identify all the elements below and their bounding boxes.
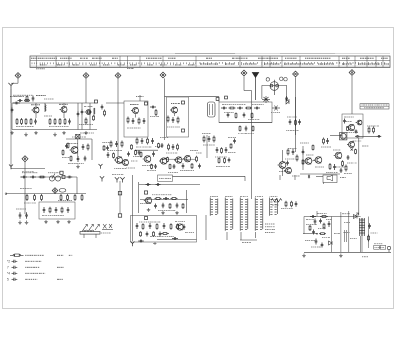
dial strip separator 2: [55, 56, 57, 67]
dial strip separator 10: [239, 56, 241, 67]
resistor R56 center a: [136, 138, 138, 145]
capacitor C51 center c: [152, 151, 155, 157]
capacitor C50 center b: [151, 138, 154, 144]
dial scale sub label mid: [127, 68, 134, 70]
ground psu left: [302, 254, 306, 258]
capacitor C57 am det e: [225, 147, 228, 153]
wire stub b: [294, 175, 296, 180]
jack symbol below fb: [131, 242, 135, 247]
dial scale lower figures 9: [160, 64, 167, 66]
FM antenna symbol: [8, 83, 13, 89]
label 150 ohm a: [334, 233, 340, 235]
label below AM box: [238, 133, 254, 135]
wave-band switch wafer S1c: [240, 198, 248, 231]
dial scale frequency figures group 2: [225, 63, 235, 65]
rectifier diode D2 on top rail: [354, 215, 358, 219]
resistor R25 right of amp: [368, 127, 370, 134]
wire FM bottom rail: [12, 129, 97, 131]
capacitor C46 fb out: [138, 240, 144, 243]
legend ceramic capacitor symbol: [12, 260, 18, 263]
DIN socket square upper: [118, 192, 121, 195]
resistor R71b psu mid: [319, 233, 326, 235]
resistor R71 psu: [323, 223, 325, 230]
resistor R51 fb c: [170, 223, 172, 230]
colon dots near speaker: [340, 177, 346, 179]
resistor R52 fb h: [161, 233, 169, 235]
wire stub a: [279, 175, 281, 180]
label T2 values: [167, 126, 180, 128]
resistor R55 mixers mid: [113, 153, 115, 159]
dial strip separator 5: [119, 56, 121, 67]
label top rail parts: [317, 213, 327, 215]
dial scale frequency figures group 8: [358, 63, 380, 65]
label am det5: [228, 152, 236, 154]
wire TP1 to antenna: [11, 82, 18, 84]
resistor R68 driver b: [296, 155, 298, 162]
label q9 parts: [336, 166, 345, 168]
capacitor C17 AM vert b: [243, 113, 246, 118]
capacitor C32 vol rail b: [30, 176, 36, 179]
tone switch box: [62, 176, 65, 179]
capacitor C29 midleft b: [77, 156, 80, 162]
test point diamond TP8: [22, 156, 28, 162]
capacitor C57c am det j: [233, 139, 236, 144]
wire psu vert e: [368, 217, 370, 249]
dial scale upper band label 8: [206, 57, 212, 59]
trimmer box FM oscillator: [95, 100, 98, 103]
switch position legend line 2: [265, 226, 275, 228]
label FM mid annotations: [44, 115, 52, 117]
wire speaker drop left: [323, 183, 325, 185]
dial strip separator 11: [261, 56, 263, 67]
capacitor C61 psu b: [328, 221, 331, 227]
wire AM box bottom rail: [219, 122, 272, 124]
label am det6: [202, 133, 211, 135]
arrow mark at Q8: [351, 148, 354, 150]
wire preamp right column: [186, 190, 188, 213]
capacitor C40 preamp v: [162, 203, 165, 209]
earth Y mid left: [99, 164, 103, 169]
svg-text:5: 5: [7, 278, 9, 282]
dial scale strip divider line: [30, 59, 390, 61]
label af left: [300, 142, 309, 144]
capacitor C62 psu c: [315, 239, 318, 245]
label am det4: [216, 166, 230, 168]
resistor R70 dropper b: [291, 201, 293, 208]
AM oscillator coil can: [208, 102, 216, 117]
label centre t2: [155, 146, 163, 148]
wire am det drop: [206, 135, 208, 158]
dial scale upper band label 14: [360, 57, 374, 59]
capacitor C54d det extra: [173, 164, 176, 169]
label fb values: [139, 221, 161, 223]
resistor R73 psu top: [320, 216, 328, 218]
label left low caps: [16, 208, 26, 210]
AM tuner section box: [219, 102, 272, 123]
transistor Q6 audio driver b: [356, 120, 362, 125]
resistor R46 preamp b: [171, 198, 178, 200]
dial scale upper band label 5: [112, 57, 118, 59]
capacitor C13 AM chain: [221, 107, 227, 110]
transistor Q4 second IF amplifier: [170, 107, 178, 113]
capacitor C45d fb row2 d: [159, 232, 162, 237]
label am det2: [215, 156, 227, 158]
label output stage: [344, 116, 354, 118]
label switch wafer 4: [255, 196, 263, 198]
ground Q1 emitter: [24, 133, 28, 137]
capacitor C37 left low: [19, 212, 22, 219]
label tone row vals2: [24, 202, 36, 204]
resistor R44 tone block b: [61, 207, 63, 214]
ground FM mid: [34, 131, 38, 135]
label output stage2: [347, 132, 358, 134]
legend text ceramic capacitor: [25, 260, 41, 262]
label mid col a: [133, 156, 141, 158]
svg-text:*4: *4: [7, 272, 10, 276]
dial scale lower figures 8: [147, 64, 154, 66]
transistor Q7 output in heatsink square: [340, 133, 347, 140]
wire TP8 stem: [24, 162, 26, 214]
switch position legend line 1: [265, 223, 275, 225]
trimmer core square T2 bottom: [182, 129, 185, 132]
resistor R50 fb b: [156, 223, 158, 230]
capacitor C36 tone block c: [67, 207, 70, 213]
AM diode with arrow: [272, 106, 280, 111]
capacitor C35 tone block b: [55, 207, 58, 213]
dial scale upper band label 3: [80, 57, 88, 59]
mains plug symbol: [387, 246, 390, 252]
resistor R20 AM vert b: [251, 113, 253, 119]
capacitor C57b am det h: [228, 158, 231, 163]
label det top: [166, 152, 178, 154]
resistor R16 in T2: [177, 117, 179, 124]
resistor R45 preamp: [155, 198, 162, 200]
capacitor C22 q9 bypass: [340, 168, 343, 173]
capacitor C45b fb extra: [183, 224, 186, 230]
resistor R66c am det i: [230, 143, 232, 149]
transistor Q22 af driver: [278, 162, 286, 169]
AM aerial coupling coil cluster: [262, 96, 270, 103]
dial scale frequency figures group 4: [264, 63, 280, 65]
label mixers: [108, 150, 122, 152]
dial scale lower figures 1: [40, 64, 47, 66]
coupling square feedback: [145, 217, 148, 220]
resistor R63 am det a: [203, 136, 205, 143]
wire psu vert b: [340, 217, 342, 253]
wire af takeoff line: [11, 168, 45, 170]
capacitor C41b preamp extra: [154, 204, 157, 209]
wire trunk x138: [138, 182, 140, 213]
capacitor C19 detector filter: [289, 119, 292, 125]
capacitor C38 left low b: [25, 212, 28, 219]
resistor R15 in T2: [167, 116, 169, 123]
loudspeaker box: [323, 175, 337, 183]
dial strip separator 7: [139, 56, 141, 67]
wire psu bottom rail: [304, 251, 391, 253]
label volume area: [22, 172, 38, 174]
dial strip separator 3: [68, 56, 70, 67]
label psu extra4: [306, 219, 314, 221]
capacitor C55 am det: [208, 136, 211, 142]
dial strip separator 13: [281, 56, 283, 67]
wire TP2 stem down: [85, 79, 87, 103]
label AM box inner2: [248, 119, 259, 121]
wire TP5 stem down: [243, 76, 245, 90]
capacitor C54e mid col: [138, 150, 141, 155]
dial scale upper band label 9: [232, 57, 247, 59]
dial scale lower figures 6: [118, 64, 124, 66]
wire psu link left: [303, 233, 317, 235]
wire q10 q11 link: [312, 160, 315, 163]
label center mid: [142, 165, 154, 167]
resistor R62f mid col: [158, 143, 160, 149]
capacitor C39c on pickup rail b: [156, 183, 161, 186]
wire psu entry stub a: [316, 211, 318, 217]
resistor R62 far right det: [196, 156, 198, 163]
label 120 ohm: [344, 173, 352, 175]
wire ferrite rod leads b: [95, 234, 97, 238]
label Q4 type: [171, 103, 180, 105]
capacitor C44 fb c: [163, 223, 166, 229]
resistor R52d fb row2 c: [153, 231, 155, 237]
dial scale frequency figures group 3: [243, 63, 257, 65]
capacitor C28 midleft: [82, 144, 85, 150]
coupling box preamp: [144, 191, 147, 194]
capacitor C65 psu top: [310, 215, 316, 218]
wave-band switch wafer S1b: [225, 198, 233, 231]
arrow bottom fb: [153, 242, 157, 245]
legend polyester capacitor symbol: [12, 266, 18, 269]
test point diamond TP1: [15, 73, 21, 79]
AM antenna mast symbol: [252, 73, 258, 101]
capacitor C65b psu extra: [312, 230, 315, 235]
dial strip separator 15: [338, 56, 340, 67]
dial scale upper band label 1: [31, 57, 57, 59]
transistor Q14 tone preamp: [144, 197, 152, 203]
label switch wafer 2: [225, 196, 233, 198]
dial strip separator 4: [99, 56, 101, 67]
switch position legend line 3: [265, 229, 275, 231]
dial strip separator 6: [127, 56, 129, 67]
wire fb bottom rail: [157, 239, 197, 241]
mains dropper resistor zigzag: [271, 199, 282, 203]
trimmer square above AM box b: [225, 96, 228, 99]
ground midleft: [76, 165, 80, 169]
capacitor C30b midleft extra: [65, 144, 68, 149]
output jack mark: [308, 175, 310, 179]
wire det rail: [160, 158, 196, 160]
label tone block: [42, 215, 64, 217]
wire gang bus horizontal: [262, 84, 287, 86]
label driver4: [288, 148, 297, 150]
resistor R34b midleft extra: [62, 150, 64, 156]
transistor Q5 audio driver: [347, 124, 355, 130]
legend text polyester capacitor: [25, 266, 39, 268]
dial scale strip outer frame: [30, 56, 390, 67]
dial scale upper band label 7: [168, 57, 176, 59]
resistor R74b psu extra: [309, 225, 311, 231]
IF transformer T2 shield box: [167, 97, 189, 137]
resistor R52c fb row2 a: [140, 231, 142, 237]
label above T1: [136, 96, 144, 98]
wire psu top rail: [304, 216, 361, 218]
rectifier diode D3 lower: [329, 241, 333, 245]
resistor R39 tone network: [60, 194, 62, 201]
label psu parts2: [311, 246, 321, 248]
label psu extra: [305, 240, 315, 242]
transistor Q16 mixer a: [114, 157, 122, 164]
resistor R8 Q2 bias group: [59, 118, 61, 125]
resistor R37 tone network: [34, 194, 36, 201]
wire midleft crystal drop: [77, 139, 79, 160]
dial scale lower figures 5: [103, 64, 110, 66]
label top rail parts2: [342, 213, 350, 215]
capacitor C8 in T1: [132, 118, 135, 124]
label fb extra2: [185, 232, 194, 234]
label dropper2: [272, 204, 279, 206]
resistor R7 Q2 bias group: [54, 118, 56, 125]
capacitor C41 preamp v2: [176, 203, 179, 209]
capacitor C54c centre extra2: [127, 152, 130, 157]
resistor R66 am det f: [218, 158, 220, 164]
resistor R11 in T1: [127, 117, 129, 124]
aerial earth Y symbol: [9, 165, 13, 170]
label fb values2: [150, 236, 174, 238]
label psu parts: [306, 224, 317, 226]
label switch unit: [159, 177, 171, 179]
wire TP4 branch horizontal: [165, 96, 220, 98]
resistor R62g mid col: [151, 164, 153, 170]
capacitor C5 FM osc: [81, 110, 84, 115]
label mid col b: [147, 170, 156, 172]
capacitor C26b amp extra: [355, 130, 358, 134]
resistor R3 Q1 emitter group: [21, 118, 23, 125]
dial scale upper band label 4: [92, 57, 102, 59]
mains transformer T3: [359, 218, 364, 236]
model label text upper: [362, 104, 388, 106]
capacitor C56 am det c: [216, 147, 219, 153]
dial scale upper band label 12: [305, 57, 331, 59]
transistor Q20 det b: [174, 157, 182, 163]
label AM chain values: [222, 104, 245, 106]
ferrite rod coil humps: [82, 230, 94, 232]
resistor R48 preamp v3: [182, 203, 184, 209]
detector diode D1: [286, 99, 289, 104]
wire Q2 collector up: [63, 103, 65, 106]
IF transformer T1 shield box: [124, 101, 148, 137]
tuning gang trimmer circle left: [266, 78, 269, 81]
label am det: [203, 144, 215, 146]
capacitor C49 center: [141, 138, 144, 144]
ground FM input: [10, 131, 14, 135]
label af chain2: [326, 172, 338, 174]
label center top: [136, 146, 152, 148]
label tone rail: [20, 188, 32, 190]
dial scale frequency figures group 5: [284, 63, 314, 65]
capacitor C58 driver: [292, 149, 295, 155]
legend text paper capacitor: [25, 278, 37, 280]
switch unit box: [158, 175, 173, 181]
dial strip separator 16: [346, 56, 348, 67]
label amp extra3: [347, 162, 357, 164]
resistor R36 tone network: [26, 194, 28, 201]
dial scale sub label left: [36, 68, 45, 70]
capacitor C34 tone block a: [43, 207, 46, 213]
dial scale frequency figures group 9: [384, 63, 389, 65]
capacitor C10 interstage: [150, 106, 156, 109]
label centre extra: [102, 142, 111, 144]
trimmer core square T2 top: [182, 101, 185, 104]
fuse label box a: [374, 245, 380, 249]
wire DIN socket link: [119, 181, 121, 214]
label right of amp: [367, 125, 379, 127]
label det mid: [180, 170, 194, 172]
svg-text:7: 7: [7, 266, 9, 270]
transistor Q15 feedback: [175, 224, 183, 230]
dial scale lower figures 3: [73, 64, 80, 66]
output stage box: [342, 114, 363, 138]
label detector parts2: [287, 116, 297, 118]
wire TP4 branch drop: [218, 97, 220, 102]
wire vertical feed at x140: [139, 95, 141, 101]
label q10 area: [306, 154, 313, 156]
legend value column row 1: [57, 254, 64, 256]
resistor R12 in T1: [138, 118, 140, 125]
model label text lower: [364, 107, 384, 109]
label midleft extra: [62, 157, 70, 159]
wire midleft top rail: [66, 138, 92, 140]
dial strip separator 19: [375, 56, 377, 67]
resistor R4 Q1 emitter group: [25, 118, 27, 125]
capacitor C58b driver extra: [286, 161, 289, 166]
capacitor C45c fb row2 b: [146, 232, 149, 237]
label fm right vals: [79, 124, 93, 126]
dial scale tick marks left band: [32, 62, 196, 65]
resistor R22 below AM box: [252, 126, 254, 132]
resistor R61 det d: [191, 163, 193, 169]
wire FM right column a: [81, 103, 83, 130]
wire driver drop: [282, 168, 284, 176]
ground FM mid b: [62, 131, 66, 135]
capacitor C14 AM chain: [237, 107, 243, 110]
label centre t5: [196, 152, 202, 154]
scan crease line: [40, 53, 390, 55]
wire Q1 collector up: [35, 103, 37, 106]
label centre extra2: [126, 167, 135, 169]
dial scale lower figures 7: [130, 64, 137, 66]
wire trunk x132: [132, 175, 134, 241]
dial scale lower figures 4: [90, 64, 97, 66]
wire tone rail: [6, 193, 86, 195]
wire pickup rail: [139, 184, 200, 186]
capacitor C39 preamp: [163, 197, 169, 200]
resistor R49 fb: [142, 223, 144, 230]
test point diamond TP3: [115, 73, 121, 79]
test point diamond TP4: [160, 72, 166, 78]
fuse label text: [375, 246, 385, 248]
legend value column row 3: [57, 266, 64, 268]
dial scale upper band label 6: [146, 57, 162, 59]
ground psu mid: [339, 254, 343, 258]
ferrite rod antenna bar: [80, 232, 100, 235]
resistor R24 q9 emitter: [342, 160, 344, 167]
wire ferrite rod leads: [83, 234, 85, 238]
label Q3 type: [130, 104, 139, 106]
capacitor C59 dropper: [295, 201, 298, 207]
capacitor C54f mid col: [161, 143, 164, 148]
transformer arrow: [356, 213, 359, 216]
fuse label box b: [380, 245, 386, 249]
